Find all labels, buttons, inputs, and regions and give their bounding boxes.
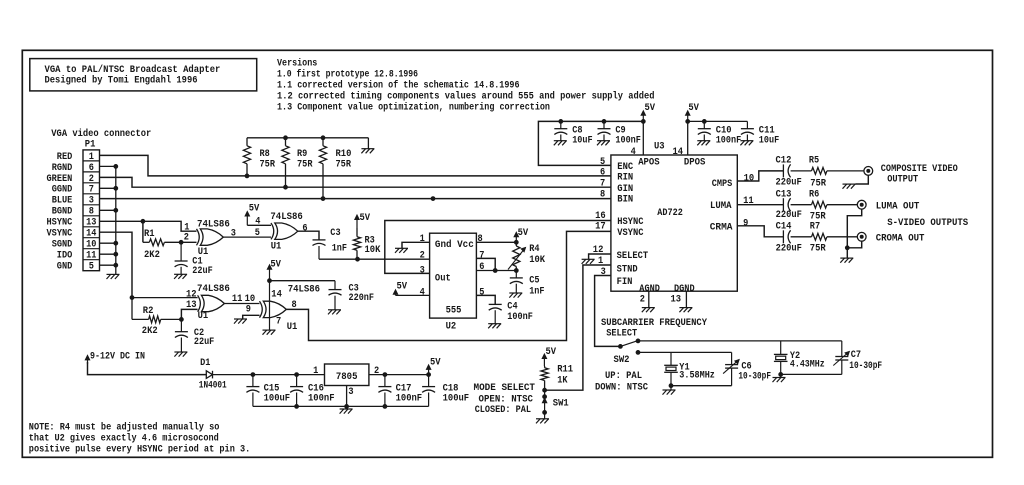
- svg-text:IDO: IDO: [57, 251, 73, 262]
- svg-text:GIN: GIN: [617, 184, 633, 195]
- svg-text:10: 10: [86, 240, 96, 251]
- svg-text:DGND: DGND: [674, 284, 695, 295]
- svg-text:6: 6: [479, 262, 484, 273]
- svg-text:100nF: 100nF: [308, 394, 335, 405]
- svg-text:4: 4: [255, 216, 260, 227]
- svg-text:6: 6: [302, 223, 307, 234]
- svg-text:7: 7: [89, 185, 94, 196]
- svg-text:U1: U1: [198, 311, 209, 322]
- svg-text:100uF: 100uF: [264, 394, 291, 405]
- svg-text:positive pulse every HSYNC per: positive pulse every HSYNC period at pin…: [29, 444, 251, 456]
- svg-text:7805: 7805: [336, 372, 358, 383]
- svg-text:4.43MHz: 4.43MHz: [790, 359, 825, 370]
- svg-text:CRMA: CRMA: [710, 222, 733, 233]
- svg-text:1.3 Component value optimizati: 1.3 Component value optimization, number…: [277, 102, 550, 114]
- svg-text:14: 14: [673, 147, 684, 158]
- svg-text:U1: U1: [287, 322, 298, 333]
- svg-text:1nF: 1nF: [529, 286, 544, 297]
- svg-text:2: 2: [420, 251, 425, 262]
- svg-text:1K: 1K: [557, 375, 567, 386]
- svg-text:100nF: 100nF: [507, 312, 533, 323]
- svg-text:Out: Out: [435, 273, 451, 284]
- svg-text:R10: R10: [336, 149, 352, 160]
- svg-text:1: 1: [89, 152, 94, 163]
- svg-text:100uF: 100uF: [443, 394, 470, 405]
- svg-text:8: 8: [478, 234, 483, 245]
- svg-text:R7: R7: [810, 221, 820, 232]
- svg-text:100nF: 100nF: [615, 136, 641, 147]
- svg-text:CROMA OUT: CROMA OUT: [876, 233, 925, 244]
- svg-text:R2: R2: [143, 306, 154, 317]
- svg-text:220nF: 220nF: [349, 293, 375, 304]
- svg-text:75R: 75R: [810, 244, 826, 255]
- svg-text:5V: 5V: [430, 357, 441, 368]
- svg-text:3: 3: [348, 387, 353, 398]
- svg-text:C12: C12: [776, 156, 792, 167]
- svg-text:5V: 5V: [397, 281, 408, 292]
- svg-text:11: 11: [86, 251, 96, 262]
- svg-text:that U2 gives exactly 4.6 micr: that U2 gives exactly 4.6 microsocond: [29, 432, 219, 444]
- svg-text:10K: 10K: [365, 245, 381, 256]
- svg-text:10: 10: [245, 294, 256, 305]
- svg-text:2: 2: [640, 295, 645, 306]
- svg-text:R8: R8: [260, 149, 270, 160]
- svg-text:14: 14: [271, 289, 282, 300]
- svg-text:1: 1: [313, 366, 318, 377]
- svg-text:10K: 10K: [529, 255, 545, 266]
- svg-text:22uF: 22uF: [194, 337, 214, 348]
- svg-text:VGA to PAL/NTSC Broadcast Adap: VGA to PAL/NTSC Broadcast Adapter: [45, 64, 221, 76]
- svg-text:13: 13: [186, 300, 197, 311]
- svg-text:APOS: APOS: [638, 158, 660, 169]
- svg-text:555: 555: [446, 306, 462, 317]
- svg-text:3: 3: [231, 229, 236, 240]
- svg-text:1nF: 1nF: [332, 243, 347, 254]
- svg-text:U2: U2: [446, 322, 457, 333]
- svg-text:1: 1: [420, 234, 425, 245]
- svg-text:COMPOSITE VIDEO: COMPOSITE VIDEO: [881, 164, 958, 175]
- svg-text:R5: R5: [809, 156, 819, 167]
- svg-text:75R: 75R: [260, 160, 276, 171]
- svg-text:74LS86: 74LS86: [270, 212, 302, 223]
- svg-text:SUBCARRIER FREQUENCY: SUBCARRIER FREQUENCY: [601, 318, 707, 329]
- svg-text:3.58MHz: 3.58MHz: [679, 371, 715, 382]
- svg-text:STND: STND: [617, 264, 638, 275]
- svg-text:C7: C7: [851, 350, 861, 361]
- svg-text:75R: 75R: [297, 160, 313, 171]
- svg-text:6: 6: [89, 163, 94, 174]
- svg-text:10-30pF: 10-30pF: [738, 371, 771, 382]
- svg-text:RGND: RGND: [52, 163, 73, 174]
- svg-text:9: 9: [246, 305, 251, 316]
- svg-text:5: 5: [89, 262, 94, 273]
- svg-text:220uF: 220uF: [776, 244, 802, 255]
- svg-text:FIN: FIN: [617, 277, 633, 288]
- svg-text:4: 4: [420, 287, 425, 298]
- svg-text:10: 10: [744, 174, 755, 185]
- svg-text:Gnd Vcc: Gnd Vcc: [435, 239, 474, 251]
- svg-text:7: 7: [600, 179, 605, 190]
- svg-text:R9: R9: [297, 149, 307, 160]
- svg-text:OUTPUT: OUTPUT: [887, 174, 918, 185]
- svg-text:12: 12: [186, 290, 197, 301]
- svg-text:D1: D1: [200, 358, 210, 369]
- svg-text:BIN: BIN: [617, 195, 633, 206]
- svg-text:220uF: 220uF: [776, 210, 802, 221]
- svg-text:13: 13: [671, 295, 682, 306]
- svg-text:Versions: Versions: [277, 58, 317, 70]
- svg-text:RIN: RIN: [617, 173, 633, 184]
- svg-text:6: 6: [600, 167, 605, 178]
- svg-text:SGND: SGND: [52, 240, 73, 251]
- svg-text:ENC: ENC: [617, 162, 633, 173]
- svg-text:U1: U1: [198, 247, 209, 258]
- svg-text:75R: 75R: [810, 179, 826, 190]
- svg-text:VSYNC: VSYNC: [47, 229, 73, 240]
- svg-text:13: 13: [86, 218, 96, 229]
- svg-text:U1: U1: [271, 242, 282, 253]
- svg-text:10-30pF: 10-30pF: [849, 361, 882, 372]
- svg-text:14: 14: [86, 229, 96, 240]
- svg-text:R11: R11: [557, 365, 573, 376]
- svg-text:DOWN: NTSC: DOWN: NTSC: [595, 382, 648, 393]
- svg-text:4: 4: [631, 147, 636, 158]
- svg-text:UP: PAL: UP: PAL: [605, 371, 642, 382]
- svg-text:9: 9: [743, 219, 748, 230]
- svg-text:1.1 corrected version of the s: 1.1 corrected version of the schematic 1…: [277, 80, 520, 92]
- svg-text:16: 16: [595, 211, 606, 222]
- svg-text:NOTE: R4 must be adjusted manu: NOTE: R4 must be adjusted manually so: [29, 421, 220, 433]
- svg-text:LUMA OUT: LUMA OUT: [876, 201, 920, 212]
- svg-text:2: 2: [374, 366, 379, 377]
- svg-text:C5: C5: [529, 275, 539, 286]
- svg-text:2K2: 2K2: [144, 250, 160, 261]
- svg-text:2: 2: [89, 174, 94, 185]
- svg-text:SELECT: SELECT: [606, 328, 637, 339]
- svg-text:17: 17: [595, 222, 606, 233]
- svg-text:SW1: SW1: [553, 399, 569, 410]
- svg-text:BGND: BGND: [52, 207, 73, 218]
- svg-text:LUMA: LUMA: [710, 201, 732, 212]
- svg-text:1.2 corrected timing component: 1.2 corrected timing components values a…: [277, 91, 655, 103]
- svg-text:R1: R1: [144, 229, 155, 240]
- svg-text:74LS86: 74LS86: [197, 220, 230, 231]
- svg-text:VGA video connector: VGA video connector: [51, 128, 151, 140]
- svg-text:220uF: 220uF: [776, 177, 802, 188]
- svg-text:75R: 75R: [336, 160, 352, 171]
- svg-text:CMPS: CMPS: [712, 179, 733, 190]
- svg-text:3: 3: [420, 266, 425, 277]
- svg-text:HSYNC: HSYNC: [617, 217, 643, 228]
- svg-text:5V: 5V: [546, 347, 557, 358]
- svg-text:5: 5: [600, 157, 605, 168]
- svg-text:2K2: 2K2: [142, 326, 158, 337]
- svg-text:DPOS: DPOS: [684, 158, 706, 169]
- svg-text:RED: RED: [57, 152, 73, 163]
- svg-text:8: 8: [600, 190, 605, 201]
- svg-text:5V: 5V: [688, 103, 699, 114]
- svg-text:11: 11: [232, 294, 243, 305]
- svg-text:GND: GND: [57, 262, 73, 273]
- svg-text:5V: 5V: [645, 103, 656, 114]
- svg-text:8: 8: [89, 207, 94, 218]
- svg-text:SELECT: SELECT: [617, 251, 649, 262]
- svg-text:5V: 5V: [249, 203, 260, 214]
- svg-text:7: 7: [479, 251, 484, 262]
- svg-text:5V: 5V: [518, 228, 529, 239]
- svg-text:5V: 5V: [270, 260, 281, 271]
- svg-text:SW2: SW2: [614, 355, 630, 366]
- svg-text:MODE SELECT: MODE SELECT: [474, 383, 536, 394]
- svg-text:100nF: 100nF: [716, 136, 742, 147]
- svg-text:U3: U3: [654, 141, 665, 152]
- svg-text:C14: C14: [776, 221, 792, 232]
- svg-text:CLOSED: PAL: CLOSED: PAL: [475, 405, 531, 416]
- svg-text:VSYNC: VSYNC: [617, 228, 643, 239]
- svg-text:74LS86: 74LS86: [288, 285, 320, 296]
- svg-text:10uF: 10uF: [759, 136, 779, 147]
- svg-text:5V: 5V: [360, 213, 371, 224]
- svg-text:S-VIDEO OUTPUTS: S-VIDEO OUTPUTS: [887, 218, 968, 229]
- svg-text:AGND: AGND: [639, 284, 660, 295]
- svg-text:C4: C4: [507, 302, 517, 313]
- svg-text:7: 7: [276, 317, 281, 328]
- svg-text:OPEN: NTSC: OPEN: NTSC: [479, 394, 534, 405]
- svg-text:BLUE: BLUE: [52, 196, 73, 207]
- svg-text:9-12V DC IN: 9-12V DC IN: [90, 352, 145, 363]
- svg-text:5: 5: [255, 228, 260, 239]
- svg-text:HSYNC: HSYNC: [47, 218, 73, 229]
- svg-text:2: 2: [184, 232, 189, 243]
- svg-text:GGND: GGND: [52, 185, 73, 196]
- svg-text:5: 5: [479, 287, 484, 298]
- svg-text:AD722: AD722: [657, 208, 683, 219]
- svg-text:1.0 first prototype 12.8.1996: 1.0 first prototype 12.8.1996: [277, 69, 418, 81]
- svg-text:100nF: 100nF: [396, 394, 423, 405]
- svg-text:R4: R4: [529, 244, 539, 255]
- svg-text:Designed by Tomi Engdahl 1996: Designed by Tomi Engdahl 1996: [45, 75, 198, 87]
- svg-text:C3: C3: [330, 228, 340, 239]
- svg-text:P1: P1: [85, 139, 96, 150]
- svg-text:3: 3: [89, 196, 94, 207]
- svg-text:1N4001: 1N4001: [199, 380, 227, 391]
- svg-text:22uF: 22uF: [192, 266, 212, 277]
- svg-text:74LS86: 74LS86: [197, 284, 230, 295]
- svg-text:10uF: 10uF: [572, 136, 592, 147]
- svg-text:GREEN: GREEN: [47, 174, 73, 185]
- svg-text:R6: R6: [809, 189, 819, 200]
- svg-text:C13: C13: [776, 189, 792, 200]
